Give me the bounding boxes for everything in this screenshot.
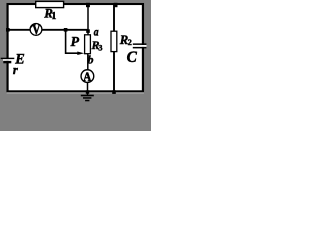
R2 top lead [113, 4, 115, 31]
outer circuit loop wire [8, 4, 143, 91]
R3 top lead [87, 4, 89, 35]
resistor R1 box [36, 1, 64, 7]
ground bar 1 [81, 95, 94, 97]
svg-text:a: a [94, 26, 99, 39]
node on top wire at R2 [114, 3, 118, 7]
node ammeter bottom [86, 90, 89, 93]
voltmeter tick [30, 24, 33, 28]
resistor R2 box [111, 31, 117, 51]
R2 bottom lead [113, 52, 115, 92]
ground bar 2 [83, 97, 91, 99]
battery E gap (erase wire between plates) [3, 59, 12, 61]
svg-text:C: C [127, 49, 138, 66]
svg-text:3: 3 [98, 43, 102, 53]
capacitor C top plate [133, 43, 147, 45]
wiper arrowhead [77, 52, 84, 56]
wiper wire [66, 30, 79, 53]
node junction wiper [64, 28, 68, 32]
ammeter A circle [81, 70, 94, 83]
node on left wire [6, 28, 10, 32]
svg-text:2: 2 [128, 37, 132, 47]
ground stem [87, 92, 89, 95]
resistor R3 box [85, 35, 91, 54]
voltmeter V circle [30, 24, 42, 36]
battery E short plate [3, 61, 11, 63]
voltmeter branch wire [8, 29, 88, 31]
node on top wire at R3 [86, 3, 90, 7]
ground bar 3 [85, 100, 89, 102]
svg-text:1: 1 [51, 11, 56, 22]
svg-text:r: r [13, 63, 18, 77]
battery E long plate [1, 58, 15, 59]
ammeter to bottom wire lead [87, 82, 89, 91]
svg-text:A: A [83, 69, 91, 84]
white circuit interior [7, 3, 144, 93]
node on bottom wire at R2 [112, 90, 116, 94]
capacitor gap (erase wire) [133, 45, 147, 47]
svg-text:V: V [32, 21, 41, 38]
svg-text:P: P [71, 35, 80, 50]
node at V-wire / R3 lead [86, 29, 90, 33]
capacitor C bottom plate [133, 47, 147, 49]
gray background [0, 0, 151, 131]
R3 to ammeter lead [87, 54, 89, 70]
